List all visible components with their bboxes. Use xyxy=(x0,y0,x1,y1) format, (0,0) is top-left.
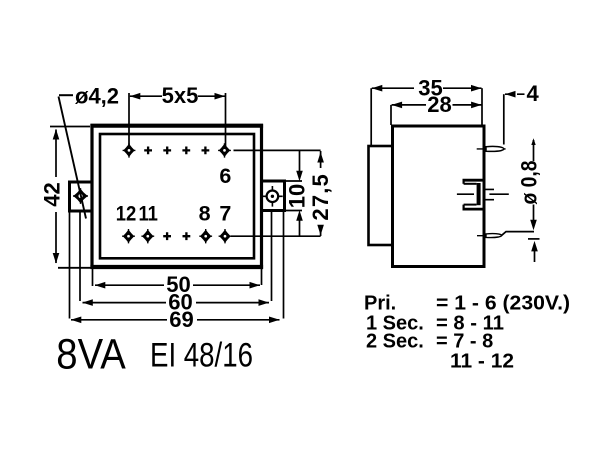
clamp vertical bar xyxy=(477,183,481,205)
pin 10 xyxy=(163,232,171,240)
pin 11 xyxy=(141,229,154,243)
svg-text:8VA: 8VA xyxy=(56,330,126,378)
bottom pin lower extension line xyxy=(528,238,540,240)
dimension 27,5 line xyxy=(320,151,322,236)
dimension 69 line xyxy=(71,319,280,321)
pin 7 xyxy=(219,229,232,243)
right mounting tab xyxy=(262,181,285,211)
svg-text:7: 7 xyxy=(219,201,231,225)
dimension 50 left extension line xyxy=(92,267,94,286)
clamp clip bottom bar xyxy=(463,208,485,211)
pin 4 xyxy=(182,147,190,155)
dimension 10 top extension line xyxy=(285,180,303,182)
extension line pin row1 right xyxy=(234,149,321,151)
pin 1 xyxy=(123,143,136,157)
dimension 5x5 line xyxy=(130,95,225,97)
dimension 60 right extension line xyxy=(271,211,273,302)
dimension 28 line xyxy=(392,104,482,106)
dimension dia 0,8 up arrow xyxy=(534,248,536,262)
svg-text:5x5: 5x5 xyxy=(162,83,199,108)
transformer body inner rectangle xyxy=(100,134,254,258)
pin 6 xyxy=(218,143,231,157)
svg-text:69: 69 xyxy=(169,307,193,332)
svg-text:10: 10 xyxy=(284,184,309,208)
dimension 60 line xyxy=(83,302,270,304)
svg-text:EI 48/16: EI 48/16 xyxy=(150,336,253,374)
left mounting hole xyxy=(73,188,88,204)
svg-text:11: 11 xyxy=(138,201,158,225)
svg-text:Pri.: Pri. xyxy=(364,293,396,315)
svg-text:4: 4 xyxy=(527,81,540,106)
dimension 69 left extension line xyxy=(69,211,71,319)
dimension 10 bottom extension line xyxy=(285,210,303,212)
pin 3 xyxy=(163,147,171,155)
pin 2 xyxy=(144,147,152,155)
dimension dia 0,8 upper line xyxy=(533,140,535,161)
pin 12 xyxy=(122,229,135,243)
dimension 4 leader line xyxy=(505,93,525,95)
svg-text:= 7 - 8: = 7 - 8 xyxy=(436,331,493,353)
dimension dia 0,8 upper tick xyxy=(531,138,535,145)
top pin outline xyxy=(486,146,504,151)
dimension 69 right extension line xyxy=(283,211,285,319)
svg-text:2 Sec.: 2 Sec. xyxy=(366,331,424,353)
dimension 60 left extension line xyxy=(79,211,81,301)
top pin centerline xyxy=(477,148,506,150)
dimension 42 line xyxy=(55,130,57,264)
leader line to mounting hole xyxy=(59,97,87,219)
svg-text:28: 28 xyxy=(427,92,451,117)
clamp centerline xyxy=(457,193,509,195)
svg-text:8: 8 xyxy=(199,201,211,225)
dimension 28 left extension line xyxy=(390,105,392,125)
dimension 42 top extension line xyxy=(50,126,90,128)
svg-text:42: 42 xyxy=(39,182,64,206)
left mounting tab xyxy=(70,182,93,211)
pin 8 xyxy=(199,229,212,243)
extension line pin row2 right xyxy=(231,235,321,237)
svg-text:27,5: 27,5 xyxy=(308,173,333,221)
dimension dia 0,8 down arrow xyxy=(533,205,535,223)
right mounting hole xyxy=(262,186,283,207)
svg-text:12: 12 xyxy=(116,201,137,225)
bottom pin extension line xyxy=(502,232,534,236)
dimension 5x5 extension lines xyxy=(129,93,226,146)
dimension 35 left extension line xyxy=(370,88,372,146)
body top and bottom edges (thick) xyxy=(90,126,263,267)
body rectangle xyxy=(393,126,485,267)
dimension 10 line xyxy=(299,150,301,236)
svg-text:ø 0,8: ø 0,8 xyxy=(517,161,542,205)
pin 5 xyxy=(202,147,210,155)
svg-text:= 1 - 6 (230V.): = 1 - 6 (230V.) xyxy=(436,293,570,315)
bottom pin outline xyxy=(486,234,502,238)
svg-text:11 - 12: 11 - 12 xyxy=(450,351,514,373)
bobbin flange xyxy=(369,146,393,245)
clamp clip top bar xyxy=(463,179,485,182)
svg-text:6: 6 xyxy=(219,164,231,188)
dimension 4 extension line xyxy=(503,94,505,144)
pin 9 xyxy=(183,232,191,240)
transformer body outer rectangle xyxy=(92,126,262,267)
svg-text:ø4,2: ø4,2 xyxy=(75,83,119,108)
dimension 50 right extension line xyxy=(261,267,263,285)
bottom pin centerline xyxy=(477,235,500,237)
dimension 35 line xyxy=(372,87,482,89)
dimension 42 bottom extension line xyxy=(58,267,92,269)
dimension 35/28 right extension line xyxy=(481,88,483,125)
dimension 50 line xyxy=(95,284,260,286)
leader dash for hole diameter label xyxy=(59,94,73,96)
clamp stub lines xyxy=(485,189,494,199)
